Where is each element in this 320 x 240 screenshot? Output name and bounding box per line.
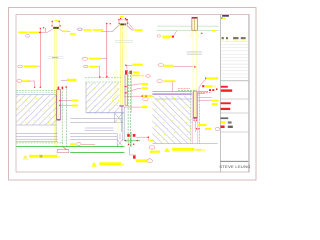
wall2 face lines below channel xyxy=(122,107,124,141)
callout ellipse B xyxy=(18,65,23,68)
revision table header row xyxy=(222,37,246,40)
title block right edge xyxy=(247,15,249,173)
long red extension line xyxy=(39,28,41,87)
red dot top of pale pair xyxy=(126,19,127,20)
floor2 leader xyxy=(81,143,95,145)
callout ellipse E xyxy=(82,57,88,60)
leader from dot to right label xyxy=(126,20,133,29)
wall2 dark caps xyxy=(125,71,127,89)
leader C long pink xyxy=(28,81,35,87)
bottom pink ellipse K xyxy=(147,159,152,163)
hatched slab 2 xyxy=(86,83,119,113)
svg-text:STEVE LEUNG: STEVE LEUNG xyxy=(219,164,250,169)
wall3 blue line xyxy=(155,98,192,100)
gap label yellow xyxy=(67,79,77,81)
floor2 second green line xyxy=(70,152,124,154)
red chip row xyxy=(221,126,225,129)
gap label leader xyxy=(61,79,67,81)
leader into wall lower xyxy=(60,104,72,106)
floor build-up lines xyxy=(16,134,57,142)
slab2 second green line xyxy=(85,81,121,83)
channel3 bottom red dots xyxy=(194,120,195,121)
red dashed line xyxy=(201,91,212,93)
bottom ellipse J xyxy=(149,146,155,150)
leader B xyxy=(37,65,40,67)
channel2 leader upper xyxy=(124,84,141,87)
mid label row yellow xyxy=(83,29,91,31)
wall3 purple line xyxy=(152,94,191,96)
slab2 bottom purple line xyxy=(86,112,124,114)
wall label lower yellow xyxy=(72,105,78,107)
bottom junction green lines xyxy=(130,132,132,147)
bottom junction chip xyxy=(149,140,153,142)
callout ellipse I xyxy=(143,98,148,101)
slab right boundary xyxy=(55,95,57,142)
cove side red clips xyxy=(52,25,53,26)
wall2 label A yellow xyxy=(142,95,153,97)
leader into wall upper xyxy=(60,100,72,102)
short red stub line xyxy=(44,28,46,32)
mullion head box xyxy=(192,17,197,30)
cove2 outline xyxy=(119,20,127,25)
right lime lines past mullion xyxy=(198,91,208,93)
outer border frame xyxy=(9,8,257,181)
slab2 green dashed top xyxy=(85,77,121,79)
channel2 label upper xyxy=(142,83,149,85)
revision table row lines xyxy=(221,42,248,78)
label H yellow xyxy=(164,80,176,82)
floor2 ellipse callout xyxy=(76,142,81,145)
tail label 2 yellow xyxy=(205,128,211,130)
caption 2 triangle xyxy=(92,162,97,165)
callout ellipse H xyxy=(157,79,162,82)
slab dashed finish line xyxy=(16,92,56,94)
divider xyxy=(220,98,248,100)
wall top red blocks xyxy=(58,87,60,90)
label R1 yellow two rows xyxy=(162,36,171,37)
caption 2 yellow title text xyxy=(99,162,120,165)
junction red blocks xyxy=(125,71,127,74)
channel2 leader lower xyxy=(124,89,141,93)
slab bottom boundary xyxy=(16,124,56,126)
wall finish green line 1 xyxy=(61,88,63,146)
pink diagonal leader xyxy=(199,80,206,96)
dimension break box xyxy=(48,56,65,58)
junction upper yellow label xyxy=(133,64,143,66)
cove2 wing right xyxy=(127,26,134,30)
red squares right xyxy=(209,89,211,91)
callout ellipse A xyxy=(26,35,30,38)
divider xyxy=(220,112,248,114)
ceiling yellow extension lines xyxy=(54,29,56,146)
cove2 corner red dots xyxy=(118,19,119,20)
floor3 bottom line xyxy=(152,143,217,145)
wall finish green line 2 xyxy=(65,88,67,146)
caption 1: yellow title text xyxy=(43,155,57,158)
title block left edge xyxy=(219,15,221,173)
bottom junction leader right xyxy=(136,137,148,140)
yellow V diagonals xyxy=(190,30,199,37)
red extension line mid xyxy=(106,23,108,76)
hatched ceiling slab xyxy=(16,95,56,125)
glass dim lines xyxy=(187,52,202,55)
leader H down xyxy=(172,82,174,91)
label E yellow xyxy=(89,58,101,60)
floor2 build-up lines xyxy=(70,134,117,140)
wall2 leader B xyxy=(124,106,141,108)
slab2 left boundary xyxy=(85,83,87,113)
junction pink ellipse xyxy=(142,75,145,76)
caption 3 triangle xyxy=(165,148,170,151)
bottom junction red dots xyxy=(125,140,126,141)
wall label upper yellow xyxy=(72,100,79,102)
cove2 olive bar xyxy=(120,23,126,25)
channel bottom cap xyxy=(57,119,61,120)
slab top boundary xyxy=(16,94,56,96)
floor2 label yellow left xyxy=(70,143,75,145)
channel2 label lower xyxy=(142,87,149,89)
right label stack: red + yellow xyxy=(202,85,204,87)
wall3 green verticals xyxy=(190,92,192,144)
pale yellow extension pair xyxy=(124,20,126,62)
cove light fixture olive bar xyxy=(53,27,59,29)
wall2 label B yellow xyxy=(142,106,148,108)
label F yellow xyxy=(89,66,98,68)
callout ellipse C xyxy=(17,80,22,83)
cove corner red dots xyxy=(52,21,53,22)
yellow chip row xyxy=(221,121,226,124)
project red text lines xyxy=(221,86,228,88)
mullion inner dark line xyxy=(194,19,196,30)
leader E xyxy=(101,58,107,60)
hatched wall 3 xyxy=(152,96,190,144)
right label yellow xyxy=(134,29,142,31)
junction yellow labels xyxy=(133,72,140,74)
top-left yellow label row xyxy=(18,32,27,34)
wall2 recess channel maroon xyxy=(125,75,128,106)
pale shelf lines xyxy=(115,40,133,42)
ceiling slab green dashed top xyxy=(16,89,60,91)
cove2 wing left + leader to mid label xyxy=(101,26,119,32)
floor green dashed line xyxy=(16,142,63,144)
leaders upper right labels xyxy=(198,97,212,99)
pale yellow pair lower xyxy=(116,118,118,134)
wall2 green finish lines xyxy=(127,72,129,146)
label B yellow xyxy=(24,65,37,67)
title block header yellow chips xyxy=(221,18,223,20)
red tick xyxy=(201,33,203,34)
cove outline xyxy=(52,21,59,27)
tail red dots xyxy=(196,128,197,129)
X blocking box lower xyxy=(117,134,122,147)
inner border frame xyxy=(16,15,249,173)
channel3 inner yellow xyxy=(194,92,196,117)
wall3 top lime lines xyxy=(152,91,191,93)
ceiling line upper xyxy=(157,25,219,27)
caption 3 yellow title text xyxy=(172,148,194,151)
channel2 pink tail xyxy=(121,107,123,132)
labels upper right yellow xyxy=(212,100,219,102)
callout ellipse F xyxy=(84,65,88,67)
tail pink ellipse xyxy=(215,127,220,130)
green dashes bottom left xyxy=(178,90,196,92)
bottom label J yellow xyxy=(150,151,160,153)
callout ellipse R1 xyxy=(157,35,160,37)
red underline block xyxy=(221,108,231,110)
leader G to mullion xyxy=(174,65,193,67)
wing right yellow label xyxy=(62,30,67,32)
divider above firm name xyxy=(220,160,248,162)
drawing-title red text xyxy=(221,102,231,104)
pale pair left of channel xyxy=(114,70,116,96)
wall3 recess channel maroon xyxy=(194,91,198,118)
scale caption dark text xyxy=(221,117,229,119)
floor finish green line xyxy=(16,146,124,148)
cove wing left xyxy=(41,29,53,32)
caption 1: scale mark xyxy=(23,155,27,158)
leader F down to slab xyxy=(98,67,100,77)
red dashes bottom left xyxy=(178,88,190,90)
channel3 pink tail xyxy=(194,121,196,132)
cove top yellow label xyxy=(55,20,59,21)
cove2 top yellow label xyxy=(120,16,124,17)
tail label yellow xyxy=(198,124,207,126)
label G yellow xyxy=(164,65,174,67)
bottom red bracket xyxy=(133,156,136,159)
cove2 side red clips xyxy=(119,23,120,24)
yellow leader diagonal in slab xyxy=(112,95,117,105)
mullion hanger yellows xyxy=(192,30,194,91)
bottom label yellow xyxy=(136,159,147,162)
purple callout ellipse D xyxy=(78,28,82,31)
skirting red mark xyxy=(63,147,66,150)
title block header text xyxy=(222,15,229,17)
cove2 yellow hanger lines xyxy=(120,25,122,105)
cove wing right to label xyxy=(59,29,70,32)
divider xyxy=(220,131,248,133)
right label stack: top yellow xyxy=(206,77,218,79)
bottom pink L leader xyxy=(130,147,136,155)
ceiling line lower xyxy=(157,30,219,32)
label C yellow xyxy=(22,80,29,82)
wall3 pink verticals xyxy=(191,92,193,144)
X blocking box upper xyxy=(115,113,123,123)
skirting callout box xyxy=(57,150,69,153)
revision table bottom divider xyxy=(220,80,248,82)
interior lines left of wall2 xyxy=(70,119,123,131)
bottom junction red blocks xyxy=(127,134,130,137)
wall recess channel (maroon) xyxy=(57,90,61,120)
callout ellipse G xyxy=(158,64,164,67)
wall2 leader A xyxy=(124,95,147,97)
